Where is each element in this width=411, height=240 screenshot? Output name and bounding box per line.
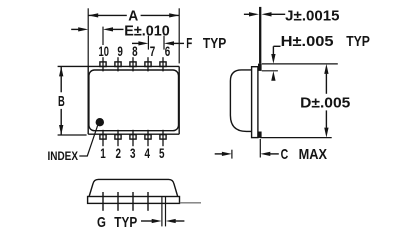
pin 2 pad bottom <box>115 135 121 140</box>
side view lid <box>230 70 251 131</box>
seating plane line <box>180 202 201 204</box>
svg-text:MAX: MAX <box>299 146 327 163</box>
dimension H extension line top <box>262 63 338 65</box>
dimension A extension line right <box>178 8 180 63</box>
index leader line <box>79 126 97 156</box>
pin 9 lead stem <box>117 57 119 71</box>
svg-text:4: 4 <box>144 145 150 161</box>
dimension H extension line bottom <box>262 70 278 72</box>
dimension E extension line (pin 10) <box>102 27 104 45</box>
dimension A extension line left <box>87 8 89 66</box>
pin 9 pad top <box>115 62 121 67</box>
top view package outer body rect <box>58 66 180 134</box>
dimension E arrows <box>71 27 123 31</box>
svg-text:1: 1 <box>100 145 106 161</box>
pin 4 lead stem <box>147 130 149 146</box>
svg-text:9: 9 <box>117 43 123 59</box>
svg-text:2: 2 <box>115 145 121 161</box>
dimension F arrows <box>132 41 184 45</box>
bottom view base bar <box>88 197 180 204</box>
svg-text:H±.005: H±.005 <box>281 33 334 50</box>
svg-text:5: 5 <box>159 145 165 161</box>
top view lid rounded rect <box>89 70 179 131</box>
pin 5 pad bottom <box>160 135 166 140</box>
pin 8 lead stem <box>132 57 134 71</box>
side view base plate <box>252 67 258 138</box>
pin 6 lead stem <box>162 57 164 71</box>
pin 10 pad top <box>100 62 106 67</box>
svg-text:D±.005: D±.005 <box>300 94 350 111</box>
svg-text:J±.0015: J±.0015 <box>285 7 339 24</box>
svg-text:F: F <box>186 35 192 52</box>
dimension F extension line (pin 7) <box>147 36 149 50</box>
dimension G arrows <box>141 219 184 223</box>
pin 1 pad bottom <box>100 135 106 140</box>
dimension B line <box>59 66 63 135</box>
pin 3 pad bottom <box>130 135 136 140</box>
dimension C arrows <box>215 152 279 156</box>
bottom view pin 3 <box>132 192 134 211</box>
dimension J arrows <box>244 12 285 16</box>
pin 10 lead stem <box>102 57 104 71</box>
side view top pad <box>258 64 262 71</box>
bottom view lid <box>89 179 178 196</box>
pin 4 pad bottom <box>145 135 151 140</box>
bottom view pin 5 / dimension G extension lines <box>162 196 166 226</box>
pin 7 lead stem <box>147 57 149 71</box>
bottom view pin 1 <box>102 192 104 211</box>
svg-text:6: 6 <box>165 43 171 59</box>
side view bottom pad <box>258 132 262 138</box>
svg-text:7: 7 <box>150 43 156 59</box>
pin 1 lead stem <box>102 130 104 146</box>
svg-text:3: 3 <box>130 145 136 161</box>
svg-text:TYP: TYP <box>114 214 137 231</box>
svg-text:INDEX: INDEX <box>48 151 79 163</box>
pin 8 pad top <box>130 62 136 67</box>
dimension D extension line bottom <box>260 137 332 139</box>
dimension C extension line right <box>259 139 261 158</box>
pin line up to J dimension <box>259 7 261 64</box>
pin 6 pad top <box>160 62 166 67</box>
svg-text:B: B <box>58 93 65 110</box>
pin 5 lead stem <box>162 130 164 146</box>
dimension C extension line left <box>231 150 233 159</box>
pin 3 lead stem <box>132 130 134 146</box>
svg-text:TYP: TYP <box>203 35 226 52</box>
pin 2 lead stem <box>117 130 119 146</box>
dimension H leader and arrows <box>271 46 280 80</box>
svg-text:TYP: TYP <box>346 33 370 50</box>
svg-text:C: C <box>281 146 289 163</box>
svg-text:8: 8 <box>132 43 138 59</box>
dimension A line <box>88 13 179 17</box>
dimension D line <box>324 64 328 138</box>
svg-text:10: 10 <box>99 43 110 59</box>
svg-text:G: G <box>97 214 106 231</box>
svg-text:E±.010: E±.010 <box>124 23 169 40</box>
index dot <box>96 118 104 126</box>
bottom view pin 4 <box>147 192 149 211</box>
dimension F extension line (pin 6) <box>163 36 165 50</box>
pin 7 pad top <box>145 62 151 67</box>
dimension B extension line bottom <box>58 134 87 136</box>
bottom view pin 2 <box>117 192 119 211</box>
